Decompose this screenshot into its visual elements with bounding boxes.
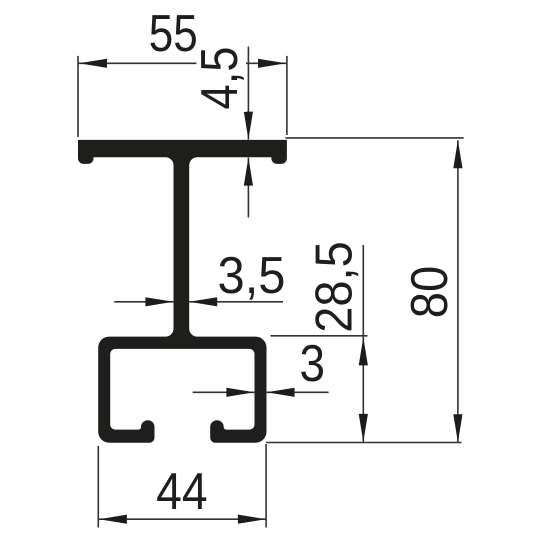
dimension 3: east arrow [226,388,254,397]
dimension 3: west arrow [267,388,295,397]
dimension 3: left dimension line [193,391,255,393]
dimension 3,5: west arrow [189,297,217,306]
dimension 4,5: up arrow [244,158,253,186]
dimension 3,5: east arrow [145,297,173,306]
svg-text:3: 3 [300,335,326,393]
svg-text:4,5: 4,5 [191,47,249,110]
dimension 28,5: extension line top [271,335,368,337]
dimension 80: extension line top [286,137,464,139]
dimension 4,5: upper dimension line [247,47,249,140]
dimension 80: down arrow [453,414,462,442]
dimension 4,5: label background mask [197,42,247,112]
profile cross-section outline [78,140,287,443]
svg-text:80: 80 [401,266,459,319]
dimension 4,5: down arrow [244,112,253,140]
dimension 4,5: lower dimension line [247,158,249,218]
dimension 44: extension line right [265,444,267,528]
dimension 3,5: left dimension line [114,301,173,303]
svg-text:44: 44 [156,463,208,521]
dimension 80: dimension line [457,140,459,442]
dimension 3: right dimension line [267,391,329,393]
dimension 55: dimension line [78,62,287,64]
dimension 80: up arrow [453,140,462,168]
dimension 80: extension line bottom (shared) [266,442,462,444]
dimension 28,5: down arrow [359,414,368,442]
dimension 44: extension line left [97,446,99,528]
dimension 3,5: right dimension line [189,301,283,303]
dimension 55: right arrow [258,59,286,68]
svg-text:3,5: 3,5 [218,247,286,305]
dimension 44: dimension line [98,518,266,520]
dimension 44: left arrow [99,515,127,524]
dimension 44: right arrow [238,515,266,524]
dimension 55: extension line left [77,56,79,137]
dimension 55: extension line right [286,56,288,135]
dimension 55: left arrow [79,59,107,68]
dimension 28,5: up arrow [359,337,368,365]
dimension 28,5: dimension line [362,245,364,442]
svg-text:28,5: 28,5 [306,241,364,333]
